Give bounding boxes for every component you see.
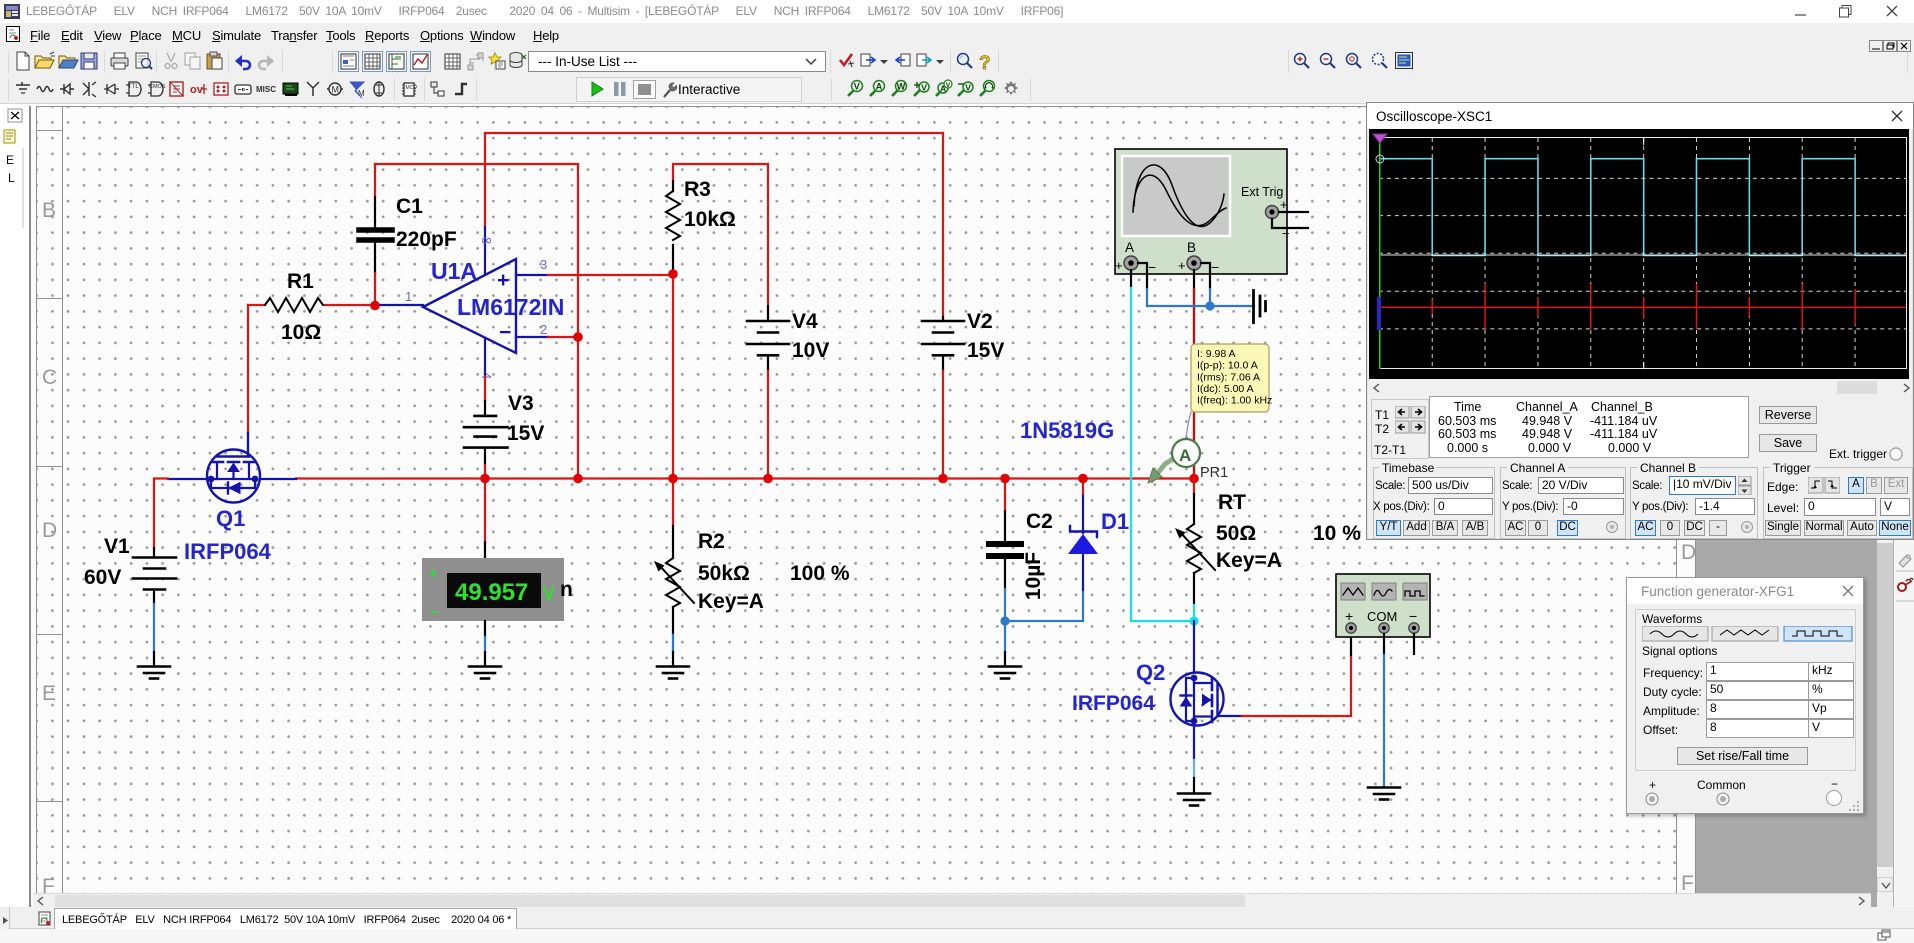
capacitor C2 xyxy=(989,544,1021,556)
wire Q1 left to V1 xyxy=(154,479,168,549)
ground R2 xyxy=(657,667,689,679)
ERC check xyxy=(840,54,854,67)
battery V4 xyxy=(747,321,789,355)
wire main output bus xyxy=(296,477,1194,479)
svg-text:V: V xyxy=(965,83,971,93)
wire V2 top xyxy=(942,133,944,317)
wire R1 node xyxy=(248,304,375,306)
wire R3 top to V4 top xyxy=(673,164,768,306)
print xyxy=(111,53,128,69)
svg-text:TTL: TTL xyxy=(128,84,139,90)
redo xyxy=(259,55,274,69)
Channel B group xyxy=(1630,467,1758,539)
svg-text:V: V xyxy=(854,82,860,92)
find xyxy=(958,54,973,69)
wire scope B minus hook xyxy=(1201,263,1210,289)
paste xyxy=(207,52,222,69)
tooltip probe readout xyxy=(1191,344,1272,412)
wire scope A minus hook xyxy=(1138,263,1147,289)
svg-text:V: V xyxy=(921,83,927,93)
In-Use List combo xyxy=(529,52,826,72)
wire C1 leads xyxy=(374,164,376,197)
wire R1 to Q1 gate xyxy=(247,305,249,433)
svg-text:MISC: MISC xyxy=(256,85,276,94)
ground Q2 xyxy=(1178,794,1210,806)
transfer icons xyxy=(861,54,875,66)
channel B trace xyxy=(1379,284,1906,330)
svg-text:V: V xyxy=(946,82,951,89)
svg-text:M: M xyxy=(358,89,365,98)
sheet border lines xyxy=(36,106,1696,107)
svg-text:L: L xyxy=(8,171,15,185)
wire Q2 gate to XFG1 plus xyxy=(1242,655,1351,716)
open xyxy=(35,52,55,68)
battery V3 xyxy=(464,416,508,448)
wire op-amp pin8 supply xyxy=(484,133,486,227)
svg-text:--- In-Use List ---: --- In-Use List --- xyxy=(538,54,637,69)
channel A square wave xyxy=(1379,159,1906,256)
Channel A group xyxy=(1500,467,1626,539)
oscilloscope icon XSC1 xyxy=(1115,149,1308,275)
battery V2 xyxy=(922,321,964,355)
svg-text:ov: ov xyxy=(190,84,204,96)
zoom toolbar xyxy=(1289,50,1413,73)
capacitor C1 xyxy=(359,230,392,240)
potentiometer RT xyxy=(1193,478,1195,494)
wire op-amp pin2 to feedback node xyxy=(516,336,548,338)
svg-text:?: ? xyxy=(979,53,991,74)
svg-text:CMOS: CMOS xyxy=(149,84,166,90)
resistor R3 xyxy=(666,191,680,240)
svg-text:W: W xyxy=(897,82,906,92)
wire scope A probe (cyan) xyxy=(1130,270,1132,288)
current probe PR1 xyxy=(1186,412,1191,444)
wire V4 xyxy=(767,306,769,320)
junction dots on bus xyxy=(370,301,380,311)
simulation controls xyxy=(577,78,802,102)
svg-text:MCU: MCU xyxy=(406,85,418,91)
wire V3 bottom to bus xyxy=(484,449,486,465)
battery V1 xyxy=(133,558,176,590)
new xyxy=(17,52,29,70)
Timebase group xyxy=(1373,467,1495,539)
op-amp U1A xyxy=(423,259,516,353)
save xyxy=(81,53,97,69)
bus xyxy=(455,84,467,94)
cut xyxy=(165,53,177,69)
wire voltmeter to ground xyxy=(484,621,486,637)
Trigger group xyxy=(1763,467,1913,539)
transistor Q1 xyxy=(168,433,296,503)
wire scope ground link xyxy=(1147,305,1252,307)
window/view icon group xyxy=(339,52,484,72)
wire top supply bus xyxy=(485,132,943,134)
wire C2 xyxy=(1004,478,1006,511)
component group icons xyxy=(16,82,30,93)
scrollbars / dock / tabs xyxy=(1877,106,1893,907)
ground V1 xyxy=(138,667,170,679)
wire Q2 source to ground xyxy=(1193,760,1195,778)
wire bus to voltmeter xyxy=(484,478,486,542)
ground voltmeter xyxy=(469,667,501,679)
svg-text:M: M xyxy=(332,85,340,95)
left collapsed design toolbox xyxy=(0,106,31,908)
open sample xyxy=(59,56,78,68)
diode D1 xyxy=(1082,478,1084,496)
print preview xyxy=(136,53,152,69)
scope scrollbar xyxy=(1369,380,1912,395)
wire XFG1 COM to ground xyxy=(1383,634,1385,655)
wire scope B to bus xyxy=(1193,270,1195,289)
readout area xyxy=(1371,399,1429,459)
resistor R1 xyxy=(265,298,323,312)
voltmeter indicator xyxy=(422,558,573,621)
ground C2 xyxy=(989,667,1021,679)
ground scope (rotated) xyxy=(1254,291,1266,323)
undo xyxy=(235,55,250,69)
wire op-amp pin3 to R3 xyxy=(516,274,548,276)
svg-text:E: E xyxy=(6,153,14,167)
wire V1 bottom to ground xyxy=(153,592,155,604)
ground XFG1 xyxy=(1368,788,1400,800)
wire feedback C1 top xyxy=(375,164,578,337)
svg-text:A: A xyxy=(876,82,883,92)
database xyxy=(510,53,526,68)
hierarchy xyxy=(431,82,444,96)
MCU chip xyxy=(402,83,417,96)
wire C2-D1 bottom link xyxy=(1005,590,1083,621)
svg-text:Interactive: Interactive xyxy=(678,82,740,97)
function generator icon XFG1 xyxy=(1336,574,1430,637)
transistor Q2 xyxy=(1193,621,1195,671)
copy xyxy=(185,53,200,69)
potentiometer R2 xyxy=(672,526,674,558)
create component xyxy=(489,53,505,69)
wire op-amp pin4 to V3 xyxy=(484,339,486,377)
wire R3 bottom node down through bus to R2 xyxy=(672,274,674,526)
wire XFG1 minus stub xyxy=(1413,634,1415,654)
wire feedback node down to output bus xyxy=(577,337,579,478)
probe icons xyxy=(848,80,1018,96)
